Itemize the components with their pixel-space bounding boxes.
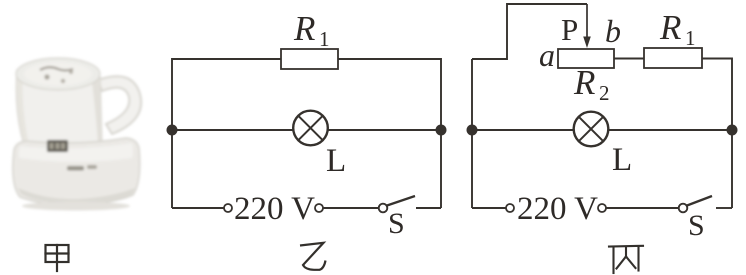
base top ridge highlight: [19, 143, 133, 162]
label 甲: [46, 245, 69, 271]
label 丙: [609, 246, 643, 273]
svg-text:R: R: [573, 63, 595, 102]
wire: R2 b-end to R1: [614, 58, 644, 60]
svg-text:L: L: [326, 143, 346, 179]
switch S blade: [687, 196, 712, 206]
wire: top right segment: [338, 59, 441, 208]
wire: middle branch right: [608, 129, 732, 131]
base label text: [67, 166, 84, 171]
junction node left: [467, 125, 478, 136]
svg-text:S: S: [388, 207, 405, 240]
wire: R1 to right corner: [702, 59, 732, 209]
svg-text:220 V: 220 V: [517, 191, 598, 227]
wire: middle branch left: [472, 129, 575, 131]
base lower shading: [18, 188, 135, 204]
wire: middle branch right: [328, 129, 441, 131]
resistor R1: [281, 49, 338, 69]
base display window: [47, 140, 68, 152]
warmer base: [13, 138, 140, 205]
wire: middle branch left: [172, 129, 294, 131]
svg-text:S: S: [688, 209, 705, 242]
cup body: [16, 60, 102, 145]
svg-text:R: R: [293, 9, 315, 48]
svg-text:P: P: [561, 12, 578, 47]
wire: bottom left to terminal: [172, 207, 224, 209]
wire: step to slider feed: [472, 4, 587, 59]
switch S pivot: [379, 204, 388, 213]
lamp L: [293, 111, 328, 146]
svg-text:1: 1: [319, 27, 330, 51]
svg-text:2: 2: [599, 81, 610, 105]
svg-text:220 V: 220 V: [234, 191, 315, 227]
svg-text:1: 1: [685, 26, 696, 50]
junction node right: [436, 125, 447, 136]
source terminal left: [224, 204, 232, 212]
source terminal right: [598, 204, 606, 212]
wire: left vertical: [172, 59, 281, 208]
switch S pivot: [679, 204, 688, 213]
svg-text:L: L: [612, 142, 632, 178]
wire: bottom left to terminal: [472, 207, 506, 209]
wire: left vertical: [471, 59, 473, 208]
source terminal left: [506, 204, 514, 212]
source terminal right: [315, 204, 323, 212]
lamp L: [574, 112, 609, 147]
wire: after switch to corner: [416, 207, 441, 209]
switch S blade: [387, 196, 415, 206]
shadow under base: [22, 202, 130, 211]
cup body shading: [92, 79, 102, 143]
svg-text:R: R: [659, 8, 681, 47]
wire: after switch to corner: [716, 207, 732, 209]
label 乙: [300, 243, 326, 270]
svg-text:b: b: [605, 13, 621, 49]
photo panel: electric heating cup (甲): [13, 58, 141, 211]
potentiometer slider arrow P: [583, 4, 591, 48]
potentiometer R2: [558, 49, 614, 68]
wire: terminal to switch: [323, 207, 379, 209]
wire: terminal to switch: [606, 207, 679, 209]
resistor R1: [644, 48, 702, 68]
cup rim and lid: [16, 58, 100, 90]
junction node left: [167, 125, 178, 136]
svg-text:a: a: [539, 37, 555, 73]
junction node right: [727, 125, 738, 136]
cup handle: [98, 76, 141, 134]
